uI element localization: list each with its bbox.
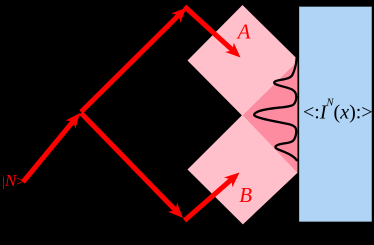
arrowhead S3 (tip inside diamond A) <box>225 43 240 58</box>
overlap region (dark pink triangle between diamonds) <box>243 60 299 174</box>
arrowhead S4 at mirror M2 <box>168 203 183 218</box>
wire: beam S1 from source to beamsplitter <box>23 121 73 182</box>
wire: beam S2 from beamsplitter to mirror M1 <box>81 15 179 112</box>
svg-text:|N>: |N> <box>2 171 25 190</box>
svg-text:B: B <box>239 183 252 207</box>
causal diamond A (light pink rotated square) <box>188 5 299 116</box>
detector region (blue rectangle) <box>298 6 372 223</box>
svg-text:<:IN(x):>: <:IN(x):> <box>303 98 373 124</box>
arrowhead S5 (tip inside diamond B) <box>224 173 240 188</box>
arrowhead S2 at mirror M1 <box>171 8 186 23</box>
wire: beam S5 from mirror M2 into diamond B <box>185 179 232 220</box>
wire: beam S3 from mirror M1 into diamond A <box>185 7 233 51</box>
wave packet curve <box>254 58 296 160</box>
causal diamond B (light pink rotated square) <box>188 115 298 225</box>
svg-text:A: A <box>236 20 251 44</box>
wire: beam S4 from beamsplitter to mirror M2 <box>81 113 176 211</box>
arrowhead S1 at beamsplitter <box>66 113 81 129</box>
